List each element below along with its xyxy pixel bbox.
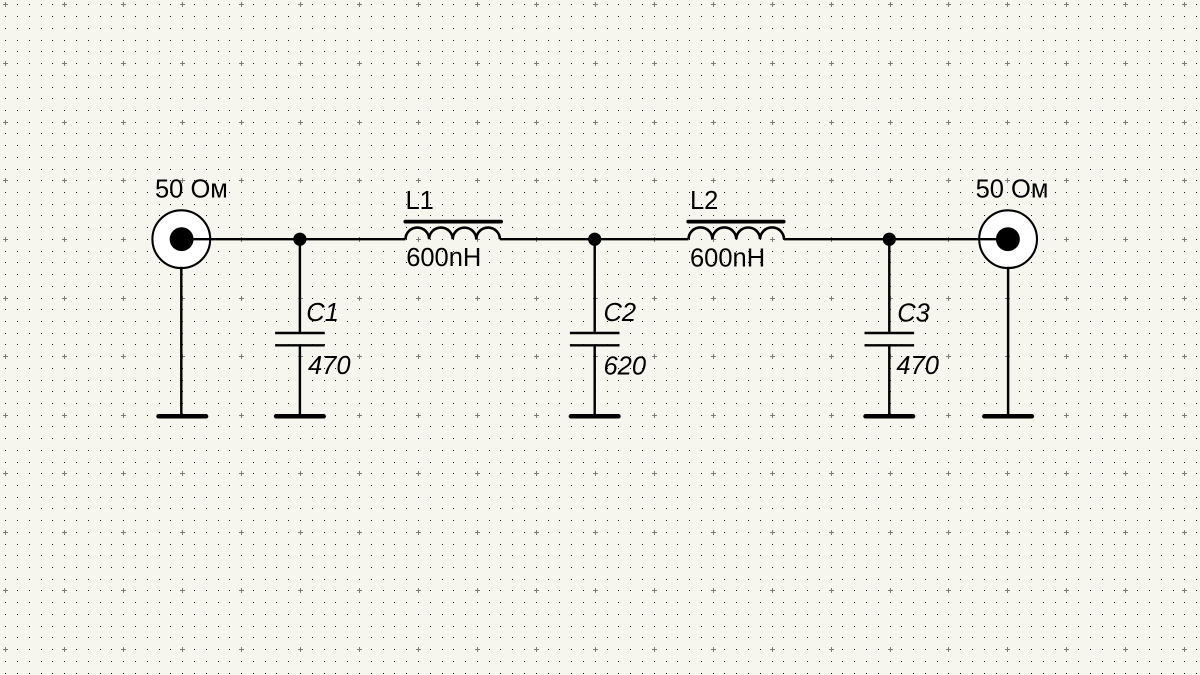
port P2 outer circle (50 Ohm connector, right) bbox=[979, 210, 1037, 268]
svg-text:50 Ом: 50 Ом bbox=[976, 175, 1049, 203]
wire: node C down to C3 bbox=[888, 239, 890, 332]
svg-text:L2: L2 bbox=[690, 187, 718, 215]
wire: C2 to ground bbox=[593, 346, 595, 416]
wire: L2 to node C and right port bbox=[784, 238, 1008, 240]
wire: node A down to C1 bbox=[299, 239, 301, 332]
wire: left port to node A bbox=[181, 238, 405, 240]
svg-text:470: 470 bbox=[896, 352, 939, 380]
wire: C1 to ground bbox=[299, 346, 301, 416]
svg-text:50 Ом: 50 Ом bbox=[155, 175, 228, 203]
capacitor C2 bbox=[570, 333, 620, 345]
node A junction dot bbox=[293, 233, 306, 246]
port P1 outer circle (50 Ohm connector, left) bbox=[152, 210, 210, 268]
ground (C3) bbox=[866, 414, 914, 419]
capacitor C3 bbox=[865, 333, 915, 345]
capacitor C1 bbox=[275, 333, 325, 345]
inductor L2 bbox=[688, 222, 784, 240]
svg-text:470: 470 bbox=[308, 352, 351, 380]
inductor L1 bbox=[405, 222, 501, 240]
node B junction dot bbox=[588, 233, 601, 246]
wire: left port down to ground bbox=[180, 267, 182, 417]
svg-text:620: 620 bbox=[604, 352, 647, 380]
ground (left port) bbox=[159, 414, 207, 419]
svg-text:C1: C1 bbox=[306, 299, 339, 327]
svg-text:L1: L1 bbox=[406, 187, 434, 215]
port P1 center pin dot (left) bbox=[170, 227, 194, 251]
svg-text:600nH: 600nH bbox=[406, 244, 481, 272]
wire: node A to L1 is same segment; wire: L1 to node B bbox=[500, 238, 689, 240]
svg-text:C3: C3 bbox=[897, 299, 930, 327]
wire: node B down to C2 bbox=[593, 239, 595, 332]
node C junction dot bbox=[883, 233, 896, 246]
wire: C3 to ground bbox=[888, 346, 890, 416]
ground (C1) bbox=[276, 414, 324, 419]
ground (C2) bbox=[571, 414, 619, 419]
wire: right port down to ground bbox=[1007, 267, 1009, 417]
port P2 center pin dot (right) bbox=[996, 227, 1020, 251]
svg-text:C2: C2 bbox=[604, 299, 637, 327]
svg-text:600nH: 600nH bbox=[690, 244, 765, 272]
ground (right port) bbox=[984, 414, 1032, 419]
